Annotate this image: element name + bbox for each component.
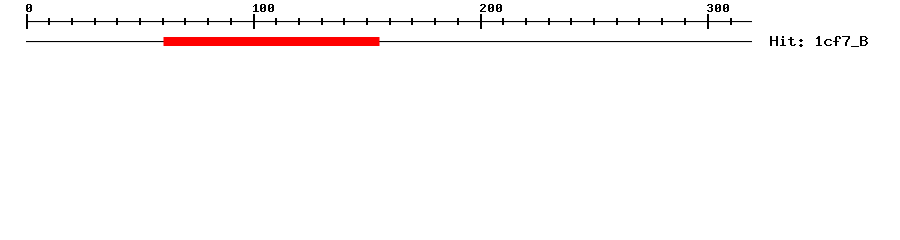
ruler minor ticks (every 10 residues): [48, 18, 732, 25]
ruler label 300: [707, 4, 729, 12]
ruler major tick 0: [26, 14, 28, 29]
ruler label 0: [26, 4, 32, 12]
hit track line: [26, 41, 752, 42]
hit label "Hit: 1cf7_B": [770, 36, 868, 47]
ruler label 100: [253, 4, 274, 12]
ruler axis line: [26, 21, 752, 22]
background: [0, 0, 900, 60]
ruler major tick 100: [253, 14, 255, 29]
ruler label 200: [480, 4, 502, 12]
ruler major tick 200: [480, 14, 482, 29]
ruler major tick 300: [707, 14, 709, 29]
hit alignment red bar (residues ~60-155): [164, 37, 380, 46]
